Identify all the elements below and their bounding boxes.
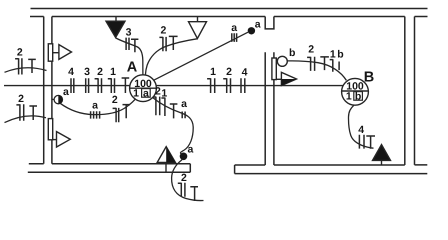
svg-text:4: 4 bbox=[358, 124, 364, 136]
svg-text:b: b bbox=[355, 90, 361, 102]
svg-text:1: 1 bbox=[161, 87, 167, 99]
svg-text:2: 2 bbox=[17, 47, 23, 59]
svg-text:2: 2 bbox=[18, 93, 24, 105]
svg-text:a: a bbox=[255, 19, 261, 31]
svg-text:1: 1 bbox=[330, 49, 336, 61]
svg-text:a: a bbox=[92, 100, 98, 112]
svg-text:A: A bbox=[127, 60, 138, 76]
svg-text:2: 2 bbox=[160, 24, 166, 36]
svg-text:b: b bbox=[289, 47, 295, 59]
svg-text:1: 1 bbox=[133, 87, 139, 99]
svg-text:a: a bbox=[143, 87, 149, 99]
svg-text:4: 4 bbox=[68, 66, 74, 78]
svg-text:B: B bbox=[364, 70, 374, 86]
svg-text:a: a bbox=[231, 22, 237, 34]
svg-text:2: 2 bbox=[155, 85, 161, 97]
svg-text:1: 1 bbox=[346, 90, 352, 102]
svg-text:a: a bbox=[188, 144, 194, 156]
svg-text:2: 2 bbox=[112, 94, 118, 106]
svg-text:1: 1 bbox=[110, 66, 116, 78]
svg-text:a: a bbox=[181, 98, 187, 110]
svg-text:2: 2 bbox=[181, 172, 187, 184]
svg-text:3: 3 bbox=[84, 66, 90, 78]
svg-text:2: 2 bbox=[226, 66, 232, 78]
svg-text:3: 3 bbox=[126, 26, 132, 38]
svg-text:b: b bbox=[337, 49, 343, 61]
svg-text:1: 1 bbox=[210, 66, 216, 78]
svg-text:a: a bbox=[63, 86, 69, 98]
svg-text:2: 2 bbox=[97, 66, 103, 78]
svg-text:4: 4 bbox=[242, 66, 248, 78]
svg-text:2: 2 bbox=[308, 43, 314, 55]
